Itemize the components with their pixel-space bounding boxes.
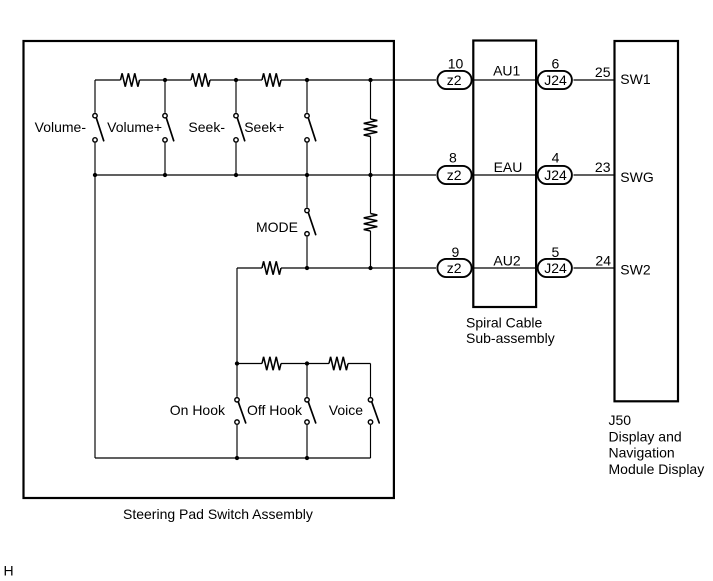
svg-text:8: 8: [449, 150, 457, 166]
junction hook row x=307: [305, 361, 309, 365]
svg-text:Volume+: Volume+: [107, 119, 162, 135]
junction row1 x=307: [305, 78, 309, 82]
box Spiral Cable Sub-assembly: [473, 41, 536, 308]
junction row2 x=95: [93, 173, 97, 177]
connector z2 pin 10: [437, 71, 471, 89]
resistor vertical lower x=370.5 (row2-row3): [364, 175, 378, 268]
resistor row3 (MODE output): [262, 261, 281, 274]
svg-text:Seek-: Seek-: [188, 119, 225, 135]
switch Seek+: [305, 80, 316, 175]
switch Volume-: [93, 80, 104, 175]
junction row2 x=307: [305, 173, 309, 177]
resistor row1 left (between Volume- and Volume+): [121, 73, 140, 86]
wire bottom bus y=458: [95, 457, 371, 459]
svg-text:J50: J50: [609, 412, 632, 428]
svg-text:25: 25: [595, 64, 611, 80]
junction row1 x=236: [234, 78, 238, 82]
svg-text:Off Hook: Off Hook: [247, 402, 303, 418]
wire drop x=237 from row3 corner to hook row: [236, 268, 238, 364]
switch On Hook: [235, 364, 246, 459]
junction row1 x=370.5: [368, 78, 372, 82]
svg-text:Module Display: Module Display: [609, 461, 705, 477]
svg-text:On Hook: On Hook: [170, 402, 226, 418]
switch Volume+: [163, 80, 174, 175]
junction row3 x=370.5: [368, 266, 372, 270]
label Spiral Cable Sub-assembly: [466, 315, 555, 347]
junction row2 x=236: [234, 173, 238, 177]
junction hook row x=237: [235, 361, 239, 365]
svg-text:5: 5: [552, 244, 560, 260]
svg-text:Steering Pad Switch Assembly: Steering Pad Switch Assembly: [123, 506, 313, 522]
resistor row1 right (between Seek- and Seek+): [262, 73, 281, 86]
svg-text:Display and: Display and: [609, 428, 682, 444]
connector J24 pin 4: [538, 166, 572, 184]
junction bottom bus x=237: [235, 456, 239, 460]
svg-text:z2: z2: [447, 260, 462, 276]
svg-text:EAU: EAU: [494, 159, 523, 175]
junction row3 x=307: [305, 266, 309, 270]
junction row2 x=370.5: [368, 173, 372, 177]
wire row 3 (AU2 net) horizontal y=268: [237, 267, 615, 269]
resistor row1 middle (between Volume+ and Seek-): [191, 73, 210, 86]
svg-text:SW1: SW1: [620, 71, 651, 87]
svg-text:z2: z2: [447, 167, 462, 183]
svg-text:Volume-: Volume-: [35, 119, 87, 135]
svg-text:Spiral Cable: Spiral Cable: [466, 315, 542, 331]
junction bottom bus x=307: [305, 456, 309, 460]
label J50 Display and Navigation Module Display: [609, 412, 705, 477]
svg-text:SW2: SW2: [620, 261, 651, 277]
resistor vertical upper x=370.5 (row1-row2): [364, 80, 378, 175]
svg-text:Voice: Voice: [329, 402, 363, 418]
svg-text:Seek+: Seek+: [244, 119, 284, 135]
junction row2 x=165: [163, 173, 167, 177]
svg-text:9: 9: [452, 244, 460, 260]
svg-text:J24: J24: [544, 167, 567, 183]
svg-text:4: 4: [552, 150, 560, 166]
svg-text:J24: J24: [544, 72, 567, 88]
resistor hook row left (between On Hook and Off Hook): [262, 357, 281, 370]
svg-text:z2: z2: [447, 72, 462, 88]
box Steering Pad Switch Assembly: [24, 41, 394, 498]
connector J24 pin 6: [538, 71, 572, 89]
svg-text:Navigation: Navigation: [609, 445, 675, 461]
svg-text:J24: J24: [544, 260, 567, 276]
connector z2 pin 9: [437, 259, 471, 277]
svg-text:Sub-assembly: Sub-assembly: [466, 330, 555, 346]
resistor hook row right (between Off Hook and Voice): [329, 357, 348, 370]
connector z2 pin 8: [437, 166, 471, 184]
svg-text:MODE: MODE: [256, 219, 298, 235]
wire hook-row top horizontal y=363.5: [237, 363, 371, 365]
svg-text:24: 24: [595, 253, 611, 269]
svg-text:AU1: AU1: [493, 63, 520, 79]
switch Seek-: [234, 80, 245, 175]
svg-text:AU2: AU2: [493, 253, 520, 269]
wire row 1 (AU1 net) horizontal y=80: [95, 79, 615, 81]
svg-text:6: 6: [552, 55, 560, 71]
svg-text:23: 23: [595, 159, 611, 175]
svg-text:SWG: SWG: [620, 169, 653, 185]
junction row1 x=165: [163, 78, 167, 82]
wire left rail x=95 from row2 to bottom bus: [94, 175, 96, 458]
wire row 2 (EAU net) horizontal y=175: [95, 174, 615, 176]
switch Off Hook: [305, 364, 316, 459]
connector J24 pin 5: [538, 259, 572, 277]
box J50 Display and Navigation Module Display: [615, 41, 679, 401]
svg-text:10: 10: [448, 55, 464, 71]
svg-text:H: H: [4, 563, 14, 579]
switch MODE: [305, 175, 316, 268]
switch Voice: [368, 364, 379, 459]
